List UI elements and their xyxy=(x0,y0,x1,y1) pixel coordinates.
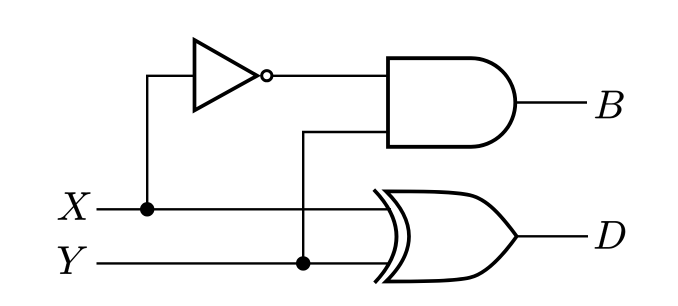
wire Y dot up to AND lower input xyxy=(303,132,390,263)
XOR gate U3 body xyxy=(386,191,517,281)
wire Y input xyxy=(97,262,391,264)
XOR gate U3 outer input arc xyxy=(374,190,397,283)
label B xyxy=(595,91,623,118)
wire X input xyxy=(97,208,392,210)
label X xyxy=(58,192,91,219)
label D xyxy=(595,221,625,248)
label Y xyxy=(58,247,87,274)
inverter U1 triangle xyxy=(195,40,258,110)
node X junction dot xyxy=(140,202,154,216)
node Y junction dot xyxy=(296,256,310,270)
wire AND output to B xyxy=(515,101,587,103)
wire X dot up to NOT input xyxy=(147,76,194,210)
inverter U1 bubble xyxy=(262,71,272,81)
wire NOT output to AND upper input xyxy=(273,75,391,77)
AND gate U2 xyxy=(388,58,515,147)
wire XOR output to D xyxy=(516,235,588,237)
